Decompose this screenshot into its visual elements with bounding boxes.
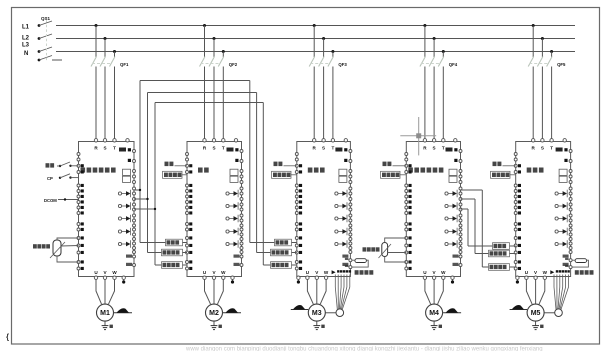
U3 PE terminal top xyxy=(344,139,347,142)
svg-text:S: S xyxy=(103,146,106,151)
label braking resistor supply 5 xyxy=(575,270,579,275)
svg-text:T: T xyxy=(331,146,334,151)
U3 output terminals U V W xyxy=(306,276,309,279)
U2 PE bottom terminal xyxy=(231,276,234,279)
U4 output terminals U V W xyxy=(423,276,426,279)
run contact U1 xyxy=(59,165,61,167)
U2 title text xyxy=(198,168,203,173)
svg-text:M4: M4 xyxy=(429,310,439,317)
motor M2 xyxy=(206,304,223,321)
svg-text:L1: L1 xyxy=(22,25,30,31)
U4 input terminals R S T xyxy=(423,139,426,142)
circuit breaker QF3 xyxy=(313,24,316,27)
U2 open collector outputs xyxy=(226,192,229,195)
svg-text:QS1: QS1 xyxy=(41,16,51,21)
U2 PE terminal top xyxy=(234,139,237,142)
svg-text:DCOM: DCOM xyxy=(44,198,57,203)
U1 right terminal strip xyxy=(133,150,136,153)
bus L3 xyxy=(56,51,575,53)
svg-text:T: T xyxy=(550,146,553,151)
bus L2 xyxy=(56,38,575,40)
U5 encoder terminals xyxy=(550,270,554,274)
svg-text:M3: M3 xyxy=(312,310,322,317)
motor M5 leads xyxy=(526,279,532,304)
circuit breaker QF5 xyxy=(532,24,535,27)
DCOM wire U1 xyxy=(58,199,79,201)
VFD drive U3 body xyxy=(297,142,351,277)
svg-text:M5: M5 xyxy=(531,310,541,317)
svg-text:T: T xyxy=(113,146,116,151)
svg-text:T: T xyxy=(222,146,225,151)
U5 title text xyxy=(527,168,532,173)
U4 left terminal strip xyxy=(405,153,408,156)
braking resistor R5 xyxy=(575,259,587,263)
U3 PE bottom terminal xyxy=(297,276,300,279)
motor M2 leads xyxy=(205,279,211,304)
svg-text:QF5: QF5 xyxy=(557,62,566,67)
motor M2 tacho symbol xyxy=(223,312,241,314)
CAD cursor artifact xyxy=(400,135,436,137)
motor M3 xyxy=(308,304,325,321)
VFD drive U1 body xyxy=(79,142,135,277)
potentiometer RP4 xyxy=(382,243,388,257)
VFD drive U2 body xyxy=(187,142,242,277)
svg-text:W: W xyxy=(543,270,548,275)
bus L1 xyxy=(56,25,575,27)
U1 output terminals U V W xyxy=(94,276,97,279)
U1 title text xyxy=(81,168,86,173)
svg-text:www diangon com bianpinqi duo: www diangon com bianpinqi duodianji tong… xyxy=(185,346,543,351)
potentiometer RP1 xyxy=(53,240,61,256)
bus N stub xyxy=(52,59,62,61)
label freq pot U1 xyxy=(33,244,37,248)
svg-text:{: { xyxy=(6,333,9,342)
U3 input terminals R S T xyxy=(313,139,316,142)
svg-text:N: N xyxy=(24,51,28,57)
motor M3 tacho symbol xyxy=(291,309,309,311)
U3 left terminal strip xyxy=(295,153,298,156)
U4 PE bottom terminal xyxy=(451,276,454,279)
U2 input terminals R S T xyxy=(203,139,206,142)
U5 input terminals R S T xyxy=(532,139,535,142)
svg-text:QF3: QF3 xyxy=(338,62,347,67)
U2 left terminal strip xyxy=(186,153,189,156)
motor M5 xyxy=(527,304,544,321)
circuit breaker QF1 xyxy=(95,24,98,27)
motor M3 leads xyxy=(307,279,313,304)
U5 output terminals U V W xyxy=(525,276,528,279)
svg-text:M1: M1 xyxy=(100,310,110,317)
motor M5 ground xyxy=(535,321,537,326)
label run/stop for U2 xyxy=(165,162,169,167)
U5 right terminal strip xyxy=(569,150,572,153)
U1 input terminals R S T xyxy=(94,139,97,142)
U3 encoder terminals xyxy=(332,270,336,274)
svg-text:W: W xyxy=(221,270,226,275)
motor M1 xyxy=(97,304,114,321)
U3 open collector outputs xyxy=(335,192,338,195)
U5 left terminal strip xyxy=(514,153,517,156)
wire bundle U4 to U5 xyxy=(461,189,483,191)
U4 PE terminal top xyxy=(454,139,457,142)
U1 left terminal strip xyxy=(77,153,80,156)
motor M3 to PG3 shaft xyxy=(325,312,336,314)
svg-text:W: W xyxy=(112,270,117,275)
label run/stop for U5 xyxy=(493,162,497,167)
U2 right terminal strip xyxy=(240,150,243,153)
motor M3 ground xyxy=(316,321,318,326)
braking resistor R3 xyxy=(355,259,367,263)
svg-text:S: S xyxy=(212,146,215,151)
motor M4 xyxy=(426,304,443,321)
svg-text:S: S xyxy=(541,146,544,151)
encoder PG5 xyxy=(555,309,563,317)
svg-text:QF2: QF2 xyxy=(229,62,238,67)
svg-text:W: W xyxy=(441,270,446,275)
svg-text:L2: L2 xyxy=(22,36,30,42)
label trio for U3 xyxy=(275,239,292,246)
motor M1 ground xyxy=(104,321,106,326)
motor M4 tacho symbol xyxy=(443,312,461,314)
U1 PE bottom terminal xyxy=(122,276,125,279)
label run U1 xyxy=(46,163,50,167)
motor M1 tacho symbol xyxy=(114,312,132,314)
U1 open collector outputs xyxy=(118,192,121,195)
U5 PE terminal top xyxy=(563,139,566,142)
wire bundle into U2 xyxy=(140,242,187,244)
label freq pot U4 xyxy=(363,247,367,251)
U5 open collector outputs xyxy=(555,192,558,195)
U2 output terminals U V W xyxy=(203,276,206,279)
svg-text:T: T xyxy=(442,146,445,151)
svg-text:QF4: QF4 xyxy=(449,62,458,67)
wire bundle top band U1 to U3 xyxy=(140,80,250,82)
label run/stop for U3 xyxy=(274,162,278,167)
svg-text:S: S xyxy=(322,146,325,151)
svg-text:L3: L3 xyxy=(22,43,30,49)
U3 title text xyxy=(308,168,313,173)
U3 right terminal strip xyxy=(349,150,352,153)
motor M5 to PG5 shaft xyxy=(544,312,555,314)
label run/stop for U4 xyxy=(383,162,387,167)
wire bundle drop to U3 xyxy=(249,81,251,243)
U1 PE terminal top xyxy=(126,139,129,142)
U4 title text xyxy=(408,168,413,173)
svg-text:M2: M2 xyxy=(209,310,219,317)
motor M4 leads xyxy=(425,279,431,304)
svg-text:S: S xyxy=(433,146,436,151)
motor M2 ground xyxy=(213,321,215,326)
svg-text:QF1: QF1 xyxy=(120,62,129,67)
encoder PG5 wires xyxy=(554,275,556,310)
U4 right terminal strip xyxy=(459,150,462,153)
VFD drive U5 body xyxy=(516,142,571,277)
label trio for U5 xyxy=(493,243,510,250)
CP contact U1 xyxy=(59,177,61,179)
circuit breaker QF4 xyxy=(423,24,426,27)
motor M4 ground xyxy=(433,321,435,326)
svg-text:CP: CP xyxy=(47,176,53,181)
circuit breaker QF2 xyxy=(203,24,206,27)
U4 open collector outputs xyxy=(445,192,448,195)
label trio for U2 xyxy=(166,239,183,246)
encoder PG3 wires xyxy=(335,275,337,310)
motor M5 tacho symbol xyxy=(510,309,527,311)
label braking resistor supply 3 xyxy=(355,270,359,275)
svg-text:W: W xyxy=(324,270,329,275)
U5 PE bottom terminal xyxy=(516,276,519,279)
motor M1 leads xyxy=(96,279,102,304)
VFD drive U4 body xyxy=(406,142,460,277)
encoder PG3 xyxy=(336,309,344,317)
wire bundle U1 outputs risers xyxy=(139,81,141,243)
